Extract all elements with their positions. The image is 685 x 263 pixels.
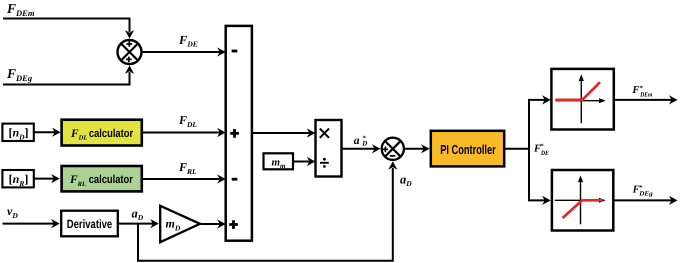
wire a_D feedback branch to summing junction S2 (138, 168, 393, 261)
saturation block top (positive limiter) (551, 69, 613, 130)
block F_DL calculator (62, 120, 142, 146)
wire F_DEm to summing junction S1 (3, 19, 130, 33)
summing block U1 (vertical comparator) (226, 26, 252, 241)
gain triangle m_D (160, 206, 200, 242)
node a_D* label (354, 135, 368, 148)
svg-text:DEg: DEg (638, 190, 653, 197)
gain box m_m (264, 153, 294, 170)
svg-text:a: a (354, 135, 360, 147)
svg-text:DEm: DEm (639, 91, 652, 98)
red saturation curve top (555, 82, 600, 100)
node F_DEm* output label (631, 85, 652, 98)
summing junction S1 (118, 40, 142, 64)
saturation block bottom (negative limiter) (552, 170, 613, 231)
wire S1 output F_DE to summing block (143, 51, 220, 53)
wire [n_D] to F_DL calculator (35, 131, 56, 133)
svg-text:calculator: calculator (89, 174, 134, 186)
summing junction S2 (382, 138, 404, 160)
block F_RL calculator (62, 166, 142, 191)
wire branch to bottom saturation block (528, 199, 545, 201)
node F_DE* label (533, 143, 549, 157)
wire PI Controller to branch point (505, 100, 529, 200)
svg-text:[nR]: [nR] (9, 172, 29, 188)
wire summing block output to multiply-divide block (252, 132, 310, 134)
wire multiply-divide output to summing junction S2 (342, 148, 376, 150)
svg-text:[nD]: [nD] (8, 126, 28, 142)
svg-text:D: D (361, 140, 367, 148)
wire S2 to PI Controller (405, 148, 424, 150)
svg-text:*: * (540, 143, 543, 150)
svg-text:F: F (631, 85, 639, 96)
wire m_m to multiply-divide block (294, 161, 310, 163)
svg-text:Derivative: Derivative (67, 217, 113, 231)
node F_DEg* output label (632, 184, 654, 197)
wire branch to top saturation block (528, 99, 545, 101)
wire [n_R] to F_RL calculator (35, 178, 55, 180)
wire F_DL to summing block (143, 132, 221, 134)
svg-text:calculator: calculator (89, 128, 134, 140)
svg-text:DE: DE (540, 150, 549, 157)
wire v_D to Derivative (3, 223, 55, 225)
wire top saturation output F_DEm* (614, 99, 672, 101)
wire bottom saturation output F_DEg* (614, 199, 672, 201)
wire F_DEg to summing junction S1 (3, 72, 130, 85)
input box [n_R] (2, 170, 33, 188)
wire F_RL to summing block (143, 178, 221, 180)
wire m_D to summing block (201, 223, 220, 225)
multiply-divide block (316, 120, 342, 177)
wire Derivative to gain m_D (119, 223, 153, 225)
block Derivative (61, 211, 118, 237)
svg-text:PI Controller: PI Controller (440, 142, 496, 157)
block PI Controller (431, 131, 504, 167)
input box [n_D] (2, 124, 33, 142)
red saturation curve bottom (563, 200, 603, 218)
